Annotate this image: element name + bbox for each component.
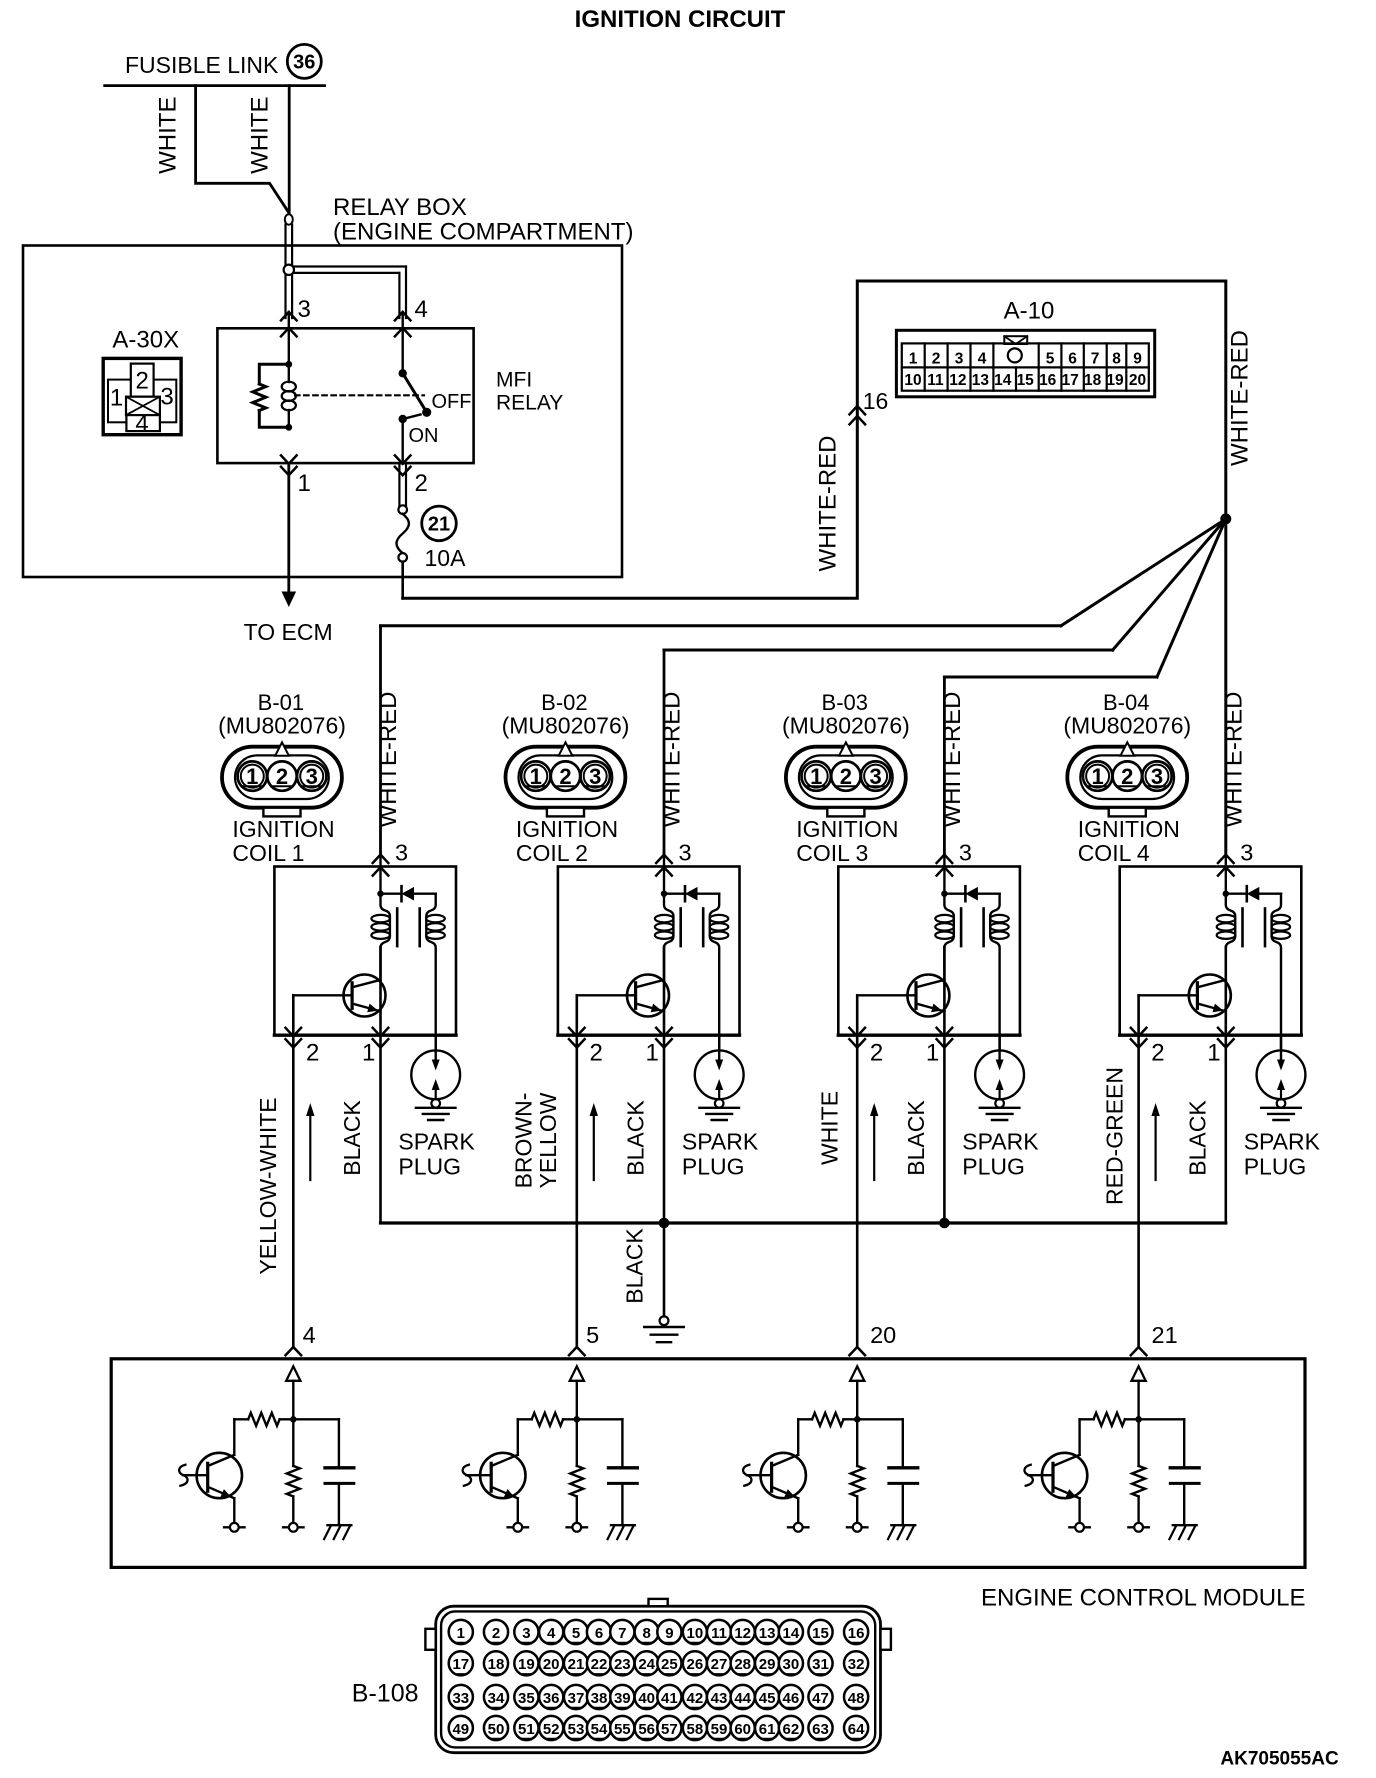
svg-text:PLUG: PLUG <box>682 1154 745 1180</box>
svg-text:59: 59 <box>711 1721 728 1738</box>
svg-text:2: 2 <box>415 470 428 497</box>
svg-text:44: 44 <box>734 1690 751 1707</box>
svg-text:IGNITION: IGNITION <box>516 816 618 842</box>
svg-text:2: 2 <box>1121 764 1133 789</box>
svg-text:2: 2 <box>590 1040 603 1067</box>
svg-text:23: 23 <box>614 1656 631 1673</box>
svg-text:58: 58 <box>687 1721 704 1738</box>
svg-text:BLACK: BLACK <box>622 1228 648 1304</box>
svg-text:7: 7 <box>618 1625 626 1642</box>
svg-text:IGNITION: IGNITION <box>1078 816 1180 842</box>
svg-text:WHITE-RED: WHITE-RED <box>1226 330 1253 466</box>
svg-text:COIL 3: COIL 3 <box>796 840 868 866</box>
svg-text:YELLOW: YELLOW <box>535 1092 561 1188</box>
svg-text:A-30X: A-30X <box>112 327 179 354</box>
svg-text:57: 57 <box>661 1721 678 1738</box>
svg-text:COIL 2: COIL 2 <box>516 840 588 866</box>
svg-text:2: 2 <box>870 1040 883 1067</box>
svg-text:25: 25 <box>661 1656 678 1673</box>
svg-text:22: 22 <box>591 1656 608 1673</box>
svg-text:11: 11 <box>927 372 944 389</box>
svg-text:WHITE: WHITE <box>817 1091 843 1165</box>
svg-text:54: 54 <box>591 1721 608 1738</box>
svg-text:27: 27 <box>711 1656 728 1673</box>
svg-text:OFF: OFF <box>432 391 472 413</box>
svg-text:43: 43 <box>711 1690 728 1707</box>
svg-text:61: 61 <box>759 1721 776 1738</box>
svg-text:21: 21 <box>428 513 450 535</box>
svg-text:IGNITION CIRCUIT: IGNITION CIRCUIT <box>575 6 786 33</box>
svg-text:60: 60 <box>734 1721 751 1738</box>
svg-text:13: 13 <box>972 372 990 389</box>
svg-text:26: 26 <box>687 1656 704 1673</box>
svg-text:12: 12 <box>949 372 966 389</box>
svg-text:50: 50 <box>488 1721 505 1738</box>
svg-text:33: 33 <box>452 1690 469 1707</box>
svg-text:39: 39 <box>614 1690 631 1707</box>
svg-text:BLACK: BLACK <box>339 1100 365 1176</box>
svg-text:1: 1 <box>246 764 258 789</box>
svg-text:46: 46 <box>783 1690 800 1707</box>
svg-text:FUSIBLE LINK: FUSIBLE LINK <box>125 52 279 78</box>
svg-text:YELLOW-WHITE: YELLOW-WHITE <box>255 1097 281 1274</box>
svg-text:B-01: B-01 <box>258 690 304 715</box>
svg-text:16: 16 <box>863 388 889 414</box>
svg-text:1: 1 <box>926 1040 939 1067</box>
svg-text:PLUG: PLUG <box>398 1154 461 1180</box>
svg-text:WHITE-RED: WHITE-RED <box>1220 692 1247 828</box>
svg-text:16: 16 <box>1039 372 1057 389</box>
svg-text:2: 2 <box>492 1625 500 1642</box>
svg-text:BLACK: BLACK <box>623 1100 649 1176</box>
svg-text:10: 10 <box>904 372 921 389</box>
svg-text:56: 56 <box>638 1721 655 1738</box>
svg-text:3: 3 <box>1151 764 1163 789</box>
svg-text:45: 45 <box>759 1690 776 1707</box>
svg-text:37: 37 <box>568 1690 585 1707</box>
svg-text:3: 3 <box>395 840 408 866</box>
svg-text:15: 15 <box>812 1625 829 1642</box>
svg-text:9: 9 <box>665 1625 673 1642</box>
svg-text:PLUG: PLUG <box>1244 1154 1307 1180</box>
svg-text:SPARK: SPARK <box>1244 1129 1321 1155</box>
svg-text:21: 21 <box>1152 1322 1178 1348</box>
svg-text:WHITE: WHITE <box>154 97 181 174</box>
svg-text:17: 17 <box>1062 372 1079 389</box>
svg-text:2: 2 <box>559 764 571 789</box>
svg-text:AK705055AC: AK705055AC <box>1220 1749 1339 1770</box>
svg-text:(ENGINE COMPARTMENT): (ENGINE COMPARTMENT) <box>333 219 633 246</box>
svg-text:SPARK: SPARK <box>682 1129 759 1155</box>
svg-text:RELAY: RELAY <box>496 392 563 415</box>
svg-text:4: 4 <box>547 1625 556 1642</box>
svg-text:3: 3 <box>679 840 692 866</box>
svg-text:1: 1 <box>810 764 822 789</box>
svg-text:64: 64 <box>848 1721 865 1738</box>
svg-text:1: 1 <box>362 1040 375 1067</box>
svg-text:55: 55 <box>614 1721 631 1738</box>
svg-text:11: 11 <box>711 1625 727 1642</box>
svg-text:42: 42 <box>687 1690 704 1707</box>
svg-text:20: 20 <box>543 1656 560 1673</box>
svg-text:4: 4 <box>303 1322 316 1348</box>
svg-text:BLACK: BLACK <box>1184 1100 1210 1176</box>
svg-text:WHITE-RED: WHITE-RED <box>815 436 842 572</box>
svg-text:41: 41 <box>661 1690 678 1707</box>
svg-text:COIL 4: COIL 4 <box>1078 840 1150 866</box>
svg-text:30: 30 <box>783 1656 800 1673</box>
svg-text:32: 32 <box>848 1656 865 1673</box>
svg-text:3: 3 <box>522 1625 530 1642</box>
svg-text:3: 3 <box>1240 840 1253 866</box>
svg-text:SPARK: SPARK <box>398 1129 475 1155</box>
svg-text:1: 1 <box>646 1040 659 1067</box>
svg-text:16: 16 <box>848 1625 865 1642</box>
svg-text:2: 2 <box>306 1040 319 1067</box>
svg-text:WHITE-RED: WHITE-RED <box>939 692 966 828</box>
svg-text:28: 28 <box>734 1656 751 1673</box>
svg-text:WHITE: WHITE <box>246 97 273 174</box>
svg-text:20: 20 <box>1129 372 1146 389</box>
svg-text:5: 5 <box>572 1625 580 1642</box>
svg-text:10A: 10A <box>425 545 467 571</box>
svg-text:2: 2 <box>932 350 941 367</box>
svg-text:1: 1 <box>110 385 123 412</box>
svg-text:1: 1 <box>1207 1040 1220 1067</box>
svg-text:BLACK: BLACK <box>903 1100 929 1176</box>
svg-text:20: 20 <box>870 1322 896 1348</box>
svg-text:(MU802076): (MU802076) <box>218 713 346 739</box>
svg-text:19: 19 <box>1106 372 1124 389</box>
svg-text:48: 48 <box>848 1690 865 1707</box>
svg-text:ON: ON <box>409 425 439 447</box>
svg-text:PLUG: PLUG <box>962 1154 1025 1180</box>
svg-text:A-10: A-10 <box>1004 298 1055 325</box>
svg-text:IGNITION: IGNITION <box>796 816 898 842</box>
svg-text:38: 38 <box>591 1690 608 1707</box>
svg-text:3: 3 <box>869 764 881 789</box>
svg-text:1: 1 <box>457 1625 465 1642</box>
svg-text:(MU802076): (MU802076) <box>502 713 630 739</box>
svg-text:1: 1 <box>298 470 311 497</box>
svg-text:49: 49 <box>452 1721 469 1738</box>
svg-text:IGNITION: IGNITION <box>232 816 334 842</box>
svg-text:29: 29 <box>759 1656 776 1673</box>
svg-text:14: 14 <box>994 372 1012 389</box>
svg-text:3: 3 <box>160 383 173 410</box>
svg-text:4: 4 <box>978 350 987 367</box>
svg-text:B-02: B-02 <box>541 690 587 715</box>
svg-text:WHITE-RED: WHITE-RED <box>375 692 402 828</box>
svg-text:15: 15 <box>1017 372 1035 389</box>
svg-text:COIL 1: COIL 1 <box>232 840 304 866</box>
svg-text:10: 10 <box>687 1625 704 1642</box>
svg-text:(MU802076): (MU802076) <box>782 713 910 739</box>
svg-text:2: 2 <box>136 368 149 395</box>
svg-text:12: 12 <box>734 1625 751 1642</box>
svg-text:WHITE-RED: WHITE-RED <box>659 692 686 828</box>
svg-text:7: 7 <box>1091 350 1100 367</box>
svg-text:2: 2 <box>276 764 288 789</box>
svg-text:52: 52 <box>543 1721 560 1738</box>
svg-text:36: 36 <box>543 1690 560 1707</box>
svg-text:40: 40 <box>638 1690 655 1707</box>
svg-text:RELAY BOX: RELAY BOX <box>333 194 467 221</box>
svg-text:17: 17 <box>452 1656 469 1673</box>
svg-text:(MU802076): (MU802076) <box>1063 713 1191 739</box>
svg-text:18: 18 <box>1084 372 1102 389</box>
svg-text:21: 21 <box>568 1656 585 1673</box>
svg-text:1: 1 <box>530 764 542 789</box>
svg-text:4: 4 <box>415 296 428 323</box>
svg-text:5: 5 <box>586 1322 599 1348</box>
svg-text:3: 3 <box>959 840 972 866</box>
svg-text:18: 18 <box>488 1656 505 1673</box>
svg-text:53: 53 <box>568 1721 585 1738</box>
svg-text:63: 63 <box>812 1721 829 1738</box>
svg-text:1: 1 <box>909 350 918 367</box>
svg-text:35: 35 <box>518 1690 535 1707</box>
svg-text:62: 62 <box>783 1721 800 1738</box>
svg-text:2: 2 <box>840 764 852 789</box>
svg-text:BROWN-: BROWN- <box>511 1093 537 1189</box>
svg-text:1: 1 <box>1091 764 1103 789</box>
svg-text:ENGINE CONTROL MODULE: ENGINE CONTROL MODULE <box>981 1585 1305 1612</box>
svg-text:B-108: B-108 <box>352 1680 419 1708</box>
svg-text:3: 3 <box>589 764 601 789</box>
svg-text:13: 13 <box>759 1625 776 1642</box>
svg-text:SPARK: SPARK <box>962 1129 1039 1155</box>
svg-text:3: 3 <box>306 764 318 789</box>
svg-text:3: 3 <box>298 296 311 323</box>
svg-text:B-03: B-03 <box>822 690 868 715</box>
svg-text:34: 34 <box>488 1690 505 1707</box>
svg-text:6: 6 <box>1068 350 1077 367</box>
svg-text:B-04: B-04 <box>1103 690 1149 715</box>
svg-text:31: 31 <box>812 1656 829 1673</box>
svg-text:3: 3 <box>955 350 964 367</box>
svg-text:8: 8 <box>643 1625 651 1642</box>
svg-text:19: 19 <box>518 1656 535 1673</box>
svg-text:51: 51 <box>518 1721 535 1738</box>
svg-text:36: 36 <box>293 51 315 73</box>
svg-text:TO ECM: TO ECM <box>244 619 333 645</box>
svg-text:9: 9 <box>1133 350 1142 367</box>
svg-text:24: 24 <box>638 1656 655 1673</box>
svg-text:5: 5 <box>1046 350 1055 367</box>
svg-text:2: 2 <box>1151 1040 1164 1067</box>
svg-text:RED-GREEN: RED-GREEN <box>1101 1067 1127 1205</box>
svg-text:6: 6 <box>595 1625 603 1642</box>
svg-text:4: 4 <box>135 411 148 438</box>
svg-text:47: 47 <box>812 1690 829 1707</box>
svg-text:14: 14 <box>783 1625 800 1642</box>
svg-text:8: 8 <box>1112 350 1121 367</box>
svg-text:MFI: MFI <box>496 369 532 392</box>
